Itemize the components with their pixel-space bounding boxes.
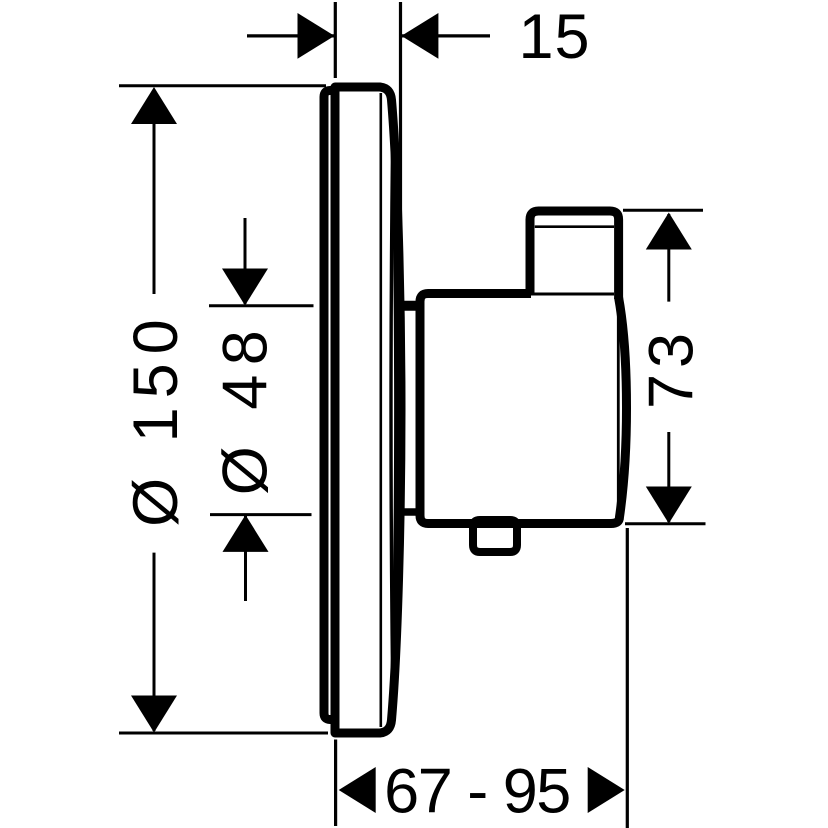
dim 150 extension line bottom [119, 732, 328, 735]
valve body right bulge edge [611, 297, 627, 524]
stop handle outline [530, 211, 619, 299]
svg-text:Ø 150: Ø 150 [121, 310, 191, 527]
valve body outline [420, 294, 611, 524]
dim 73 leader top [667, 214, 670, 302]
dim 150 extension line top [119, 84, 326, 87]
dim 150 leader bottom [153, 553, 156, 731]
dim 73 extension line bottom [625, 522, 706, 525]
valve body top thin line under handle [531, 293, 614, 296]
escutcheon front plate outline [335, 87, 401, 733]
bottom tab [473, 520, 517, 552]
dim 15 extension line left [334, 2, 337, 78]
dim 48 leader bottom [244, 516, 247, 601]
dim 15 leader right [402, 34, 490, 37]
dim 15 arrow right [401, 13, 438, 59]
svg-text:Ø 48: Ø 48 [211, 321, 281, 496]
sleeve connector top [401, 301, 418, 311]
escutcheon inner rim line [379, 93, 382, 727]
dim 48 tick bottom [210, 513, 312, 516]
dim 15 extension line right [399, 2, 402, 270]
dim 67-95 arrow left [339, 767, 376, 813]
dim 73 arrow up [646, 213, 692, 250]
dim 150 arrow up [131, 87, 177, 124]
dim 15 arrow left [298, 13, 335, 59]
dim 48 tick top [209, 304, 314, 307]
dim 15 leader left [247, 34, 334, 37]
dim 67-95 arrow right [588, 767, 625, 813]
dim 48 arrow down [222, 269, 268, 306]
dim 150 arrow down [131, 696, 177, 733]
escutcheon dome silhouette line [391, 150, 393, 670]
dim 150 leader top [153, 90, 156, 294]
sleeve connector bottom [401, 508, 418, 516]
dim 48 arrow up [223, 515, 269, 552]
handle collar line [535, 225, 614, 228]
svg-text:67 - 95: 67 - 95 [384, 756, 570, 826]
valve body right inner line [617, 300, 620, 516]
dim 67-95 extension line right [626, 528, 629, 828]
dim 73 extension line top [623, 209, 703, 212]
svg-text:73: 73 [637, 327, 707, 409]
dim 48 leader top [244, 218, 247, 304]
escutcheon front face arc [392, 110, 396, 712]
svg-text:15: 15 [518, 2, 590, 72]
escutcheon back sleeve plate [324, 91, 338, 720]
dim 73 arrow down [646, 487, 692, 524]
dim 73 leader bottom [667, 432, 670, 522]
dim 67-95 extension line left [334, 740, 337, 827]
